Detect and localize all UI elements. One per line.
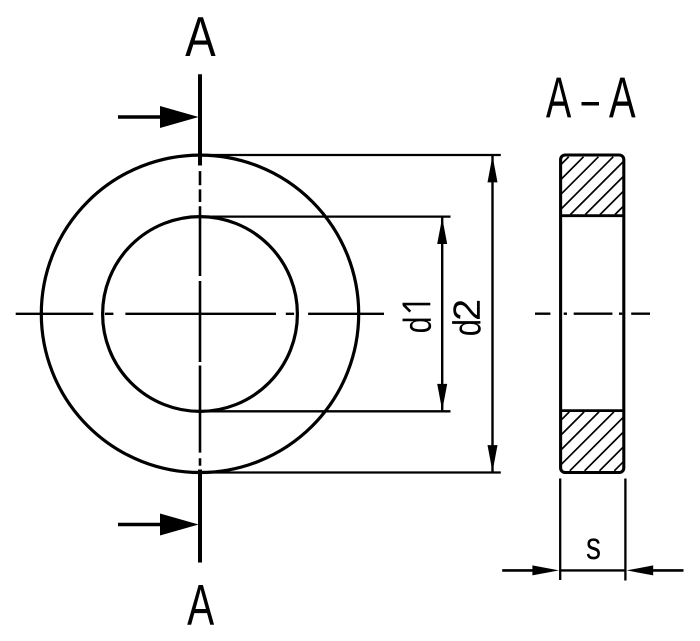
section view centerline (dash-dot): [535, 313, 650, 315]
cutting plane line A-A (vertical), thick end segments: [198, 74, 202, 562]
label d2 (rotated): [452, 301, 481, 335]
extension line, outer top tangent: [202, 154, 501, 156]
hole boundary line (bottom): [561, 409, 624, 412]
section label A (top): [185, 17, 215, 56]
dimension line s: [560, 569, 625, 571]
section title A-A : first A: [546, 78, 571, 118]
washer section outline: [561, 155, 624, 473]
dimension line d1: [441, 217, 443, 412]
extension line s (right): [624, 479, 626, 581]
washer inner circle / hole (d1): [103, 217, 298, 412]
viewing direction arrow (bottom): [118, 523, 161, 526]
extension line s (left): [559, 479, 561, 581]
s arrow right: [651, 569, 684, 572]
s arrow left: [502, 569, 535, 572]
label s: [587, 538, 600, 559]
horizontal centerline (left view, dash-dot): [16, 313, 384, 315]
section label A (bottom): [187, 585, 214, 625]
hole boundary line (top): [561, 214, 624, 217]
extension line, outer bottom tangent: [202, 471, 501, 473]
washer outer circle (d2): [41, 155, 358, 472]
label d1 (rotated): [403, 304, 432, 332]
viewing direction arrow (top): [118, 115, 161, 118]
section title A-A : second A: [609, 78, 636, 118]
extension line, inner bottom tangent: [202, 410, 451, 412]
hatching, lower cut face: [562, 412, 623, 471]
hatching, upper cut face: [562, 157, 623, 215]
section title dash: [582, 102, 600, 106]
cutting plane line A-A, thin dash-dot middle: [199, 171, 202, 466]
extension line, inner top tangent: [202, 215, 451, 217]
dimension line d2: [491, 155, 493, 473]
